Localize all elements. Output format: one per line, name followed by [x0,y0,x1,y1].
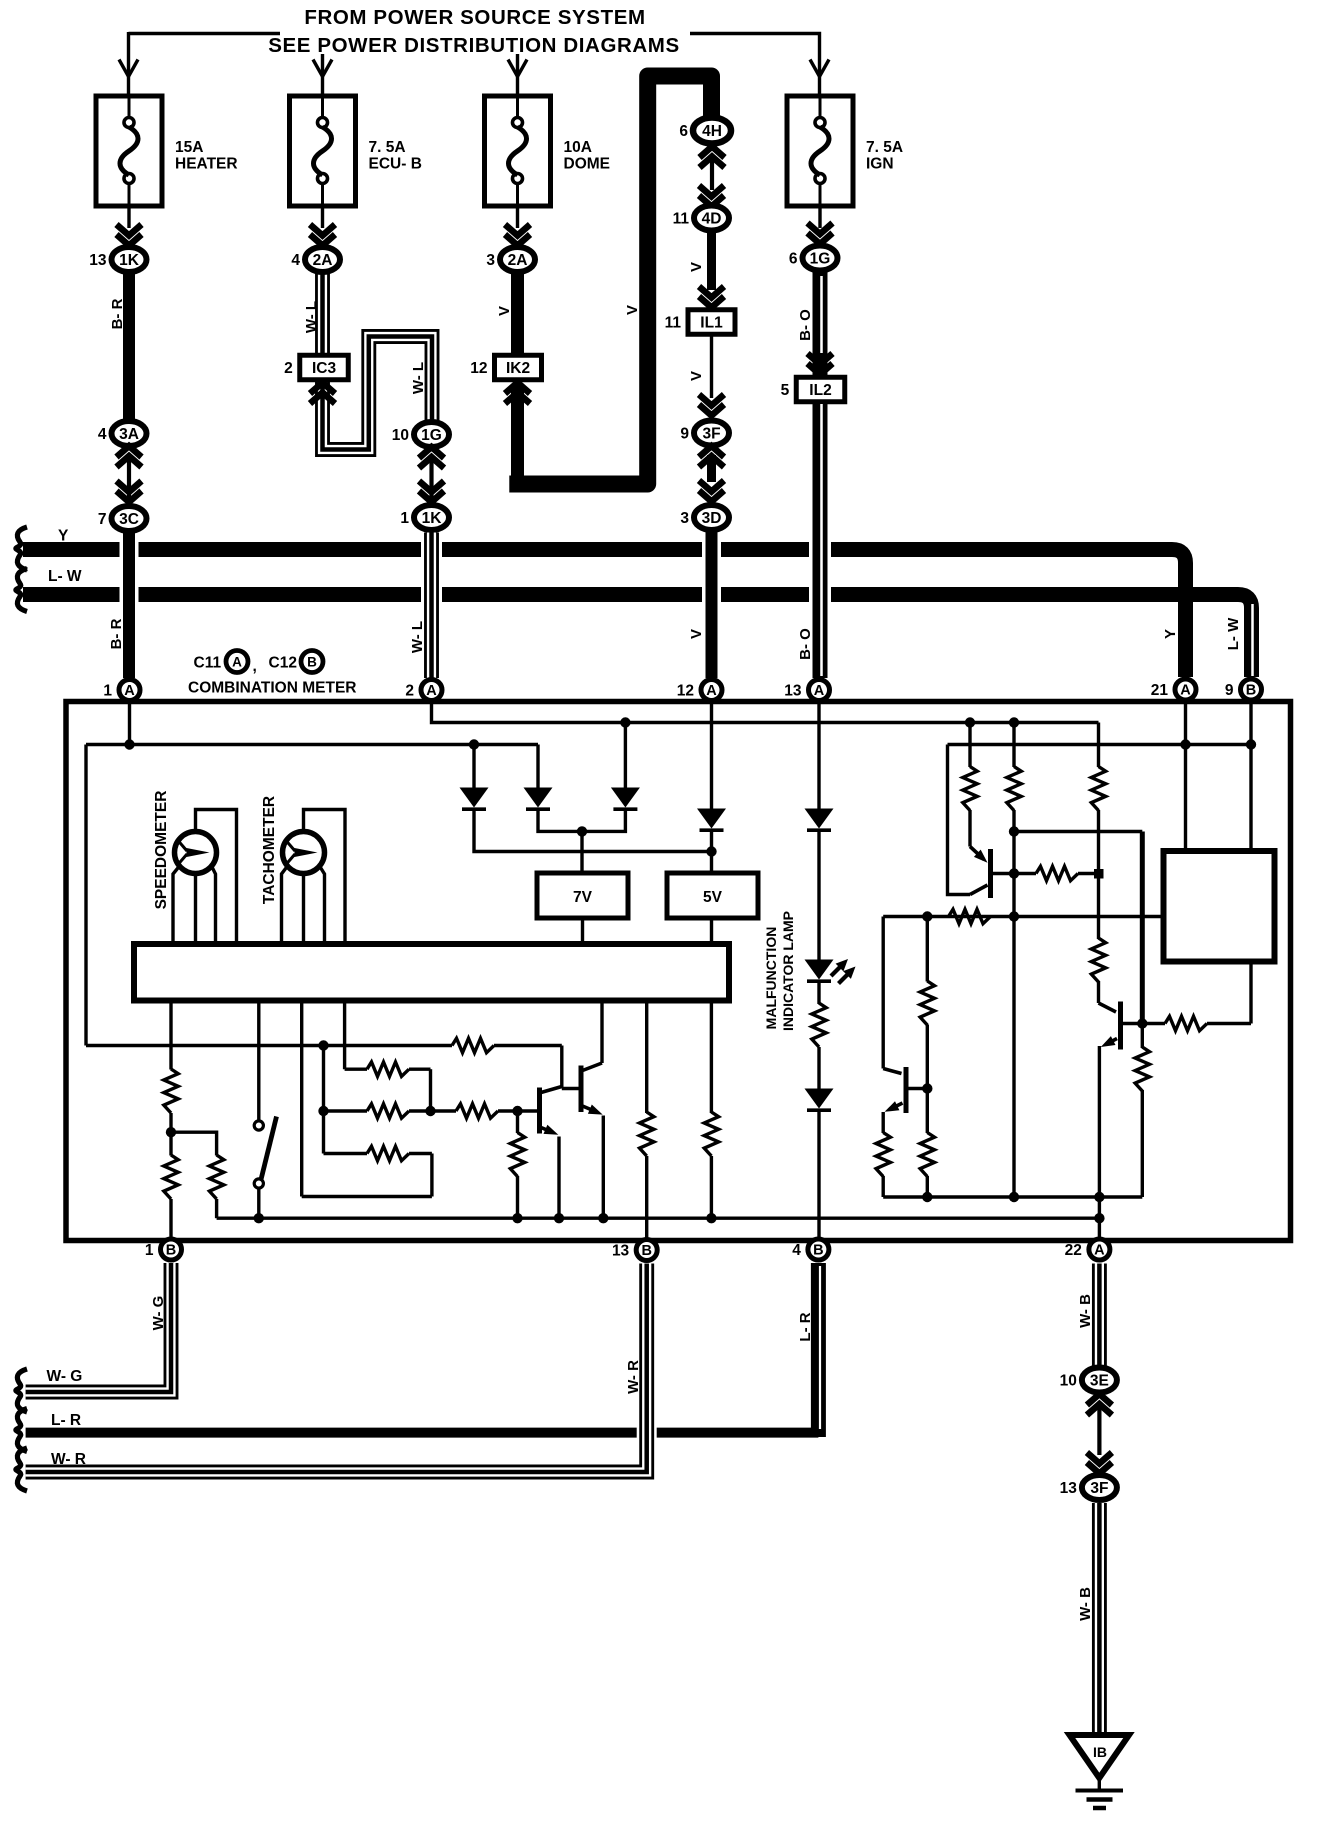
wire crossing halos over buses [120,541,832,604]
wire W-B: 3F to ground (triple) [1092,1503,1107,1735]
connector A pin 22 [1065,1239,1110,1260]
connector IL2 pin 5 [781,377,845,402]
resistor R-x927 lower [920,1133,934,1177]
resistor R-x1142 [1135,1047,1149,1091]
junction dot rail2 x711 [706,1213,716,1223]
wire: Q5 emitter drop [602,1116,605,1219]
svg-text:V: V [624,305,641,315]
connector 2A pin 3 [486,247,535,272]
label B- O (lower) [797,628,814,660]
svg-text:A: A [124,683,135,699]
diode D3 [611,788,640,810]
svg-text:B- R: B- R [108,618,125,649]
arrow into IL1 [699,287,724,308]
wire: diode4 to 5V box [710,830,713,873]
svg-text:9: 9 [680,426,689,443]
connector 4H pin 6 [679,118,731,144]
label W- G (rotated) [150,1296,167,1331]
wire B-O: 1G to IL2 (striped) [820,270,822,378]
wire B-O: IL2 to meter A13 (striped) [820,402,822,678]
svg-text:1K: 1K [119,252,140,269]
wire W-R: B13 to left edge (triple) [26,1264,647,1473]
svg-text:V: V [496,306,513,316]
svg-text:12: 12 [470,360,487,377]
arrow into connector 1G(6) [808,223,833,244]
svg-text:V: V [688,629,705,639]
resistor R-y916 [949,909,991,923]
svg-text:W- L: W- L [409,621,426,653]
label V (big U wire) [624,305,641,315]
wire V: 2A to IK2 (thick) [511,272,524,356]
svg-text:13: 13 [1060,1480,1078,1497]
wire: B1 column middle [169,1113,172,1156]
svg-text:IGN: IGN [866,156,894,173]
svg-text:6: 6 [679,123,688,140]
svg-text:22: 22 [1065,1242,1082,1259]
wire: DOME fuse to connector 2A(3) [516,206,519,228]
switch S1 [254,1117,276,1189]
svg-text:4: 4 [291,252,300,269]
arrow into connector 3D [699,481,724,502]
label V (4D-IL1) [688,262,705,272]
connector A pin 21 [1151,679,1196,700]
wire: x1142 vertical upper [1140,832,1145,1024]
svg-text:10: 10 [392,427,409,444]
svg-text:1: 1 [145,1242,154,1259]
wire: heater fuse to connector 1K [127,206,130,228]
connector A pin 12 [677,680,722,701]
arrow into connector 1K [117,225,142,246]
wire: x517 resistor leg [516,1111,519,1218]
resistor Rc2 [1091,938,1105,982]
bus wire L-W (horizontal) [23,595,1253,678]
transistor Q3 (NPN) [883,1067,927,1113]
svg-text:3D: 3D [702,510,722,527]
wire: switch to rail2 [257,1188,260,1218]
svg-text:DOME: DOME [564,156,611,173]
title text: SEE POWER DISTRIBUTION DIAGRAMS [268,34,680,57]
label W- L (lower) [409,621,426,653]
svg-text:1G: 1G [810,251,831,268]
wire: diode5 to LED [817,830,820,961]
brace: Y bus left end [16,527,27,570]
label B- R (upper) [109,298,126,329]
wire: 1G to 1K link [429,456,433,500]
wire: A12 stub to diode4 [710,702,713,810]
transistor Q1 (PNP) [970,847,991,899]
wire: rail1 right [883,1195,1142,1198]
wire: diode6 to B4 [817,1109,820,1239]
svg-text:7. 5A: 7. 5A [866,139,903,156]
svg-text:11: 11 [665,315,682,332]
svg-text:L- R: L- R [797,1312,814,1341]
svg-text:2: 2 [405,683,414,700]
wire: left inner vertical x86 [84,745,87,1046]
arrow up into IC3 bottom [310,383,335,404]
connector 3D pin 3 [680,505,729,530]
svg-text:B- R: B- R [109,298,126,329]
wire W-L: IC3 zigzag to 1G (triple) [323,337,433,450]
svg-text:HEATER: HEATER [175,156,238,173]
diode D6 [805,1089,834,1111]
svg-text:4: 4 [792,1242,801,1259]
connector 2A pin 4 [291,247,340,272]
svg-text:12: 12 [677,683,694,700]
svg-text:L- W: L- W [48,568,82,585]
halo W-R over L-R bus [637,1426,657,1439]
label W- R (rotated) [625,1360,642,1394]
resistor R-parallel [209,1155,223,1199]
svg-text:TACHOMETER: TACHOMETER [261,796,278,904]
svg-text:2A: 2A [508,252,528,269]
svg-text:INDICATOR LAMP: INDICATOR LAMP [780,911,796,1031]
junction dot Ra top [965,717,975,727]
wire: top power feed line right segment with corner to IGN [690,34,820,59]
arrow up into IK2 bottom [505,383,530,404]
svg-text:IL1: IL1 [700,315,723,332]
wire: Rc chain x1098 [1097,723,1100,1004]
wire: DOME feed drop [516,54,519,96]
label W- L (zigzag) [410,362,427,394]
diode D1 [460,788,489,810]
svg-text:1G: 1G [421,427,442,444]
svg-text:A: A [426,683,437,699]
junction dot ladder top [318,1040,328,1050]
connector 3A pin 4 [98,421,147,446]
svg-text:Y: Y [1162,629,1179,639]
resistor R-Q2base [1165,1016,1207,1030]
wire: rowA feed [343,1000,346,1069]
wire: Rb chain x1014 [1012,723,1015,1198]
wire: rail722 to Ra [968,723,971,768]
svg-text:V: V [688,262,705,272]
arrow into connector 1K(1) [419,481,444,502]
arrow: heater feed chevron [119,60,138,77]
svg-text:A: A [232,655,242,670]
svg-text:3F: 3F [702,426,720,443]
wire: diode1 drop [472,745,475,790]
svg-text:13: 13 [612,1243,630,1260]
wire: diode2 drop [536,745,539,790]
junction dot rail2 x559 [554,1213,564,1223]
voltage regulator 7V [537,873,628,918]
arrow into connector 2A(4) [310,225,335,246]
wire W-G: B1 to left edge (triple) [26,1263,171,1392]
speedometer gauge [175,832,217,874]
wire: IL1 to 3F link [710,335,713,399]
svg-text:W- R: W- R [625,1360,642,1394]
title text: FROM POWER SOURCE SYSTEM [304,6,645,29]
junction dot rail1 x927 [922,1192,932,1202]
fuse F1 15A HEATER [96,96,238,206]
wire: parallel resistor branch [171,1132,217,1155]
svg-text:C12: C12 [269,655,297,672]
connector B pin 1 [145,1239,182,1260]
svg-text:3: 3 [486,252,495,269]
wire: tachometer leads [282,810,346,945]
diode D2 [524,788,553,810]
resistor R-x517 [510,1133,524,1177]
diode D5 [805,809,834,831]
svg-text:B- O: B- O [797,628,814,660]
resistor R-B1 upper [164,1069,178,1113]
svg-text:W- R: W- R [51,1451,86,1468]
arrow into connector 2A(3) [505,225,530,246]
wire V: 4D to IL1 (medium) [707,231,716,290]
svg-text:7: 7 [98,511,107,528]
svg-text:IL2: IL2 [809,382,831,399]
wire: Q1 base resistor line [1016,872,1099,875]
wire: Ra to Q1 emitter [968,810,971,847]
svg-text:COMBINATION METER: COMBINATION METER [188,680,356,697]
wire: diode2 to 7V node [538,809,582,831]
svg-text:5: 5 [781,382,790,399]
junction dot rowB x430 [425,1106,435,1116]
wire: Q1 base to Rb [991,872,1014,875]
resistor R-rowB1 [367,1104,409,1118]
wire: x431.9 riser [430,1154,433,1197]
unlabeled box (right) [1164,851,1275,962]
brace: W-G left end [16,1369,27,1412]
wire: horizontal y1045 [86,1044,562,1047]
wire: node to 7V box [580,831,583,873]
wire: Q3 collector feed [882,917,885,1069]
arrow into connector 4D [699,186,724,207]
label B- O (upper) [797,309,814,341]
junction dot rail2 switch [254,1213,264,1223]
junction dot Q1 base [1009,868,1019,878]
arrow up into 4H bottom [700,147,725,168]
svg-text:2: 2 [284,360,293,377]
svg-text:IC3: IC3 [312,360,337,377]
junction dot Q3 base [922,1083,932,1093]
svg-text:15A: 15A [175,139,203,156]
label INDICATOR LAMP (rotated) [780,911,796,1031]
wire V: 3D to meter A12 (thick) [706,530,718,678]
meter PCB block [134,944,729,1001]
arrow into IL2 [808,354,833,375]
junction dot diode1 rail [469,739,479,749]
wire: Q1 collector loop [948,745,971,895]
resistor R-rowC [367,1146,409,1160]
wire: rail2 [217,1216,1100,1219]
svg-text:L- W: L- W [1225,617,1242,650]
svg-text:B- O: B- O [797,309,814,341]
label L- R (horizontal) [51,1412,81,1429]
wire: B1 column upper [169,1000,172,1070]
wire: x323.5 vertical [322,1046,325,1154]
svg-text:7. 5A: 7. 5A [369,139,406,156]
label W- G (horizontal) [47,1368,83,1385]
label W- R (horizontal) [51,1451,86,1468]
junction dot 5V node [706,846,716,856]
svg-text:21: 21 [1151,682,1169,699]
wire: resistor to diode6 [817,1047,820,1090]
wire: IGN feed drop [818,58,821,96]
connector IC3 pin 2 [284,355,348,380]
wire: y831 horizontal [1014,830,1142,833]
wire B-R: 3C to meter A1 (thick) [123,531,135,678]
connector 1G pin 6 (IGN) [789,246,838,271]
svg-text:11: 11 [673,211,690,228]
junction dot 7V node [577,826,587,836]
bus wire L-R (horizontal) [26,1428,819,1438]
wire: left rail y744 [86,743,538,746]
svg-text:2A: 2A [313,252,333,269]
wire: Q4 collector riser [560,1046,563,1089]
wire B-R: 1K to 3A (thick) [123,272,135,424]
wire: ECU-B feed drop [321,54,324,96]
label SPEEDOMETER (rotated) [153,791,170,910]
resistor R-rowA [367,1062,409,1076]
junction dot x1014-rail [1009,1192,1019,1202]
svg-text:W- B: W- B [1077,1294,1094,1328]
diode D4 [697,809,726,831]
svg-text:3: 3 [680,510,689,527]
connector A pin 13 [784,680,829,701]
connector IK2 pin 12 [470,355,541,380]
label W- B (rotated upper) [1077,1294,1094,1328]
brace: L-R left end [16,1409,27,1452]
svg-text:1: 1 [400,510,409,527]
connector 3C pin 7 [98,506,147,531]
wire: 7V to PCB [581,918,584,943]
svg-text:B: B [166,1243,176,1259]
wire W-L: 1K to meter A2 (triple) [424,533,439,679]
connector A pin 1 [103,680,140,701]
wire: 4H to 4D link [710,156,714,190]
wire: x646 resistor leg to B13 [645,1000,648,1238]
svg-text:L- R: L- R [51,1412,81,1429]
svg-text:C11: C11 [194,655,222,672]
wire: 3F to 3D (medium) [707,455,716,482]
connector B pin 4 [792,1239,829,1260]
resistor Rb [1007,767,1021,811]
junction dot A1 rail [124,739,134,749]
wire: y916 horizontal [883,915,1163,918]
wire: LED to resistor [817,981,820,1004]
wire: A21 stub to box [1184,702,1187,851]
junction dot B1 column [166,1127,176,1137]
label V (dome wire) [496,306,513,316]
LED malfunction indicator lamp [805,959,856,984]
svg-text:10: 10 [1060,1373,1077,1390]
resistor on y1045 line [452,1038,494,1052]
fuse F4 7.5A IGN [787,96,903,206]
svg-text:13: 13 [89,252,107,269]
svg-text:SEE POWER DISTRIBUTION DIAGRAM: SEE POWER DISTRIBUTION DIAGRAMS [268,34,680,57]
brace: W-R left end [16,1448,27,1491]
resistor R-Q1base [1036,866,1078,880]
svg-text:W- G: W- G [150,1296,167,1331]
wire: diode3 to 7V node [582,809,625,831]
svg-text:6: 6 [789,251,798,268]
wire W-L: 2A to IC3 (triple) [315,272,330,356]
wire: Q2 emitter to A22 column [1098,1046,1101,1238]
resistor R-x927 upper [920,981,934,1025]
wire: A2 stub and rail y722 [432,702,1099,723]
wire: switch feed [257,1000,260,1121]
svg-text:10A: 10A [564,139,592,156]
connector A pin 2 [405,680,442,701]
arrow: IGN feed chevron [810,60,829,77]
connector 3E pin 10 [1060,1368,1117,1393]
label MALFUNCTION (rotated) [763,927,779,1030]
wire L-R: B4 drop (striped) [818,1263,820,1437]
resistor Ra [963,767,977,811]
svg-text:9: 9 [1225,682,1234,699]
wire: rowA segments [345,1067,431,1070]
arrow: ECU-B feed chevron [313,60,332,77]
wire: IGN fuse to connector 1G [818,206,821,228]
ground IB [1070,1735,1130,1808]
label V (IL1-3F) [688,371,705,381]
wire: rail1 left [302,1195,432,1198]
junction dot x1014-y831 [1009,826,1019,836]
wire: top power feed line left segment [129,32,281,35]
wire: speedometer leads [173,810,237,945]
arrow up into 3E bottom [1087,1394,1112,1415]
wire: rowB segments [324,1109,538,1112]
wire: ECU-B fuse to connector 2A [321,206,324,228]
junction dot Q2emitter rail1 [1094,1192,1104,1202]
svg-text:B: B [1246,683,1256,699]
voltage regulator 5V [667,873,758,918]
label W- L (upper) [303,301,320,333]
junction dot rowB x517 [512,1106,522,1116]
wire: x301 vertical [300,1000,303,1197]
arrow: DOME feed chevron [508,60,527,77]
wire V: IK2 down and big U to 4H (thick) [509,76,711,490]
resistor R-rowB2 [456,1104,498,1118]
svg-text:V: V [688,371,705,381]
junction dot y916 x927 [922,911,932,921]
resistor R-MIL [812,1003,826,1047]
fuse F2 7.5A ECU-B [290,96,422,206]
brace: L-W bus left end [16,569,27,612]
resistor R-x711 [704,1112,718,1156]
connector 4D pin 11 [673,206,729,231]
svg-text:3C: 3C [119,511,139,528]
label L- W (rotated, right drop) [1225,617,1242,650]
connector 3F pin 9 [680,421,729,446]
svg-text:FROM POWER SOURCE SYSTEM: FROM POWER SOURCE SYSTEM [304,6,645,29]
wire W-B: A22 to 3E (triple) [1092,1264,1107,1369]
svg-text:A: A [706,683,717,699]
svg-text:W- G: W- G [47,1368,83,1385]
legend C11 A , C12 B [194,651,324,676]
junction dot A22 rail2 [1094,1213,1104,1223]
svg-text:MALFUNCTION: MALFUNCTION [763,927,779,1030]
wire: heater feed drop [127,32,130,96]
connector 3F pin 13 [1060,1475,1117,1500]
wire: x927 chain [926,917,929,1198]
junction dot B9 rail [1246,739,1256,749]
label Y (rotated, right drop) [1162,629,1179,639]
svg-text:4: 4 [98,426,107,443]
wire: A13 stub to diode5 [817,702,820,810]
svg-text:7V: 7V [573,889,593,906]
wire: x1142 lower resistor leg [1141,1024,1144,1198]
svg-text:B: B [813,1243,823,1259]
connector B pin 9 [1225,679,1262,700]
svg-text:B: B [641,1243,651,1259]
junction dot diode3 top [620,717,630,727]
svg-text:1K: 1K [422,510,443,527]
arrow into connector 3F [699,395,724,416]
svg-text:1: 1 [103,683,112,700]
junction dot rowB x323 [318,1106,328,1116]
